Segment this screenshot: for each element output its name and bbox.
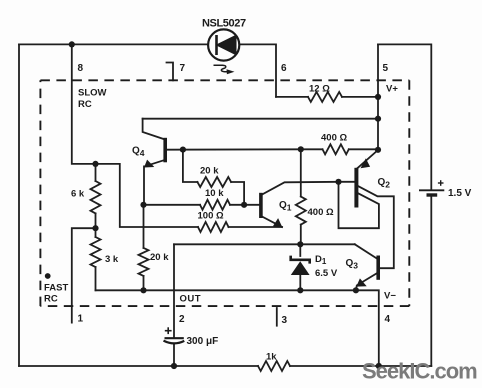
svg-text:1: 1 — [78, 314, 84, 325]
svg-text:4: 4 — [385, 314, 391, 325]
transistor Q1 — [261, 193, 283, 228]
wire 10k line left — [144, 204, 201, 206]
pin 7 stub — [167, 63, 174, 81]
wire Q4 base line — [167, 148, 301, 150]
node FAST RC terminal — [45, 273, 51, 279]
wire 100 ohm to Q1 emitter — [229, 226, 283, 228]
svg-text:FAST: FAST — [44, 283, 68, 294]
wire 400 ohm vert bottom lead — [300, 225, 302, 245]
svg-text:SeekIC.com: SeekIC.com — [362, 359, 477, 384]
svg-text:SLOW: SLOW — [78, 88, 107, 99]
wire pin 8 vertical — [72, 44, 96, 163]
wire outer left vertical — [18, 44, 20, 366]
wire 400 ohm horiz leads — [301, 148, 323, 150]
battery 1.5V lower lead — [430, 195, 432, 366]
node pin8 top — [69, 41, 75, 47]
wire Q2 collector2 — [356, 185, 393, 268]
wire Q4 collector line to pin5 — [143, 118, 378, 120]
wire Q2 collector1 loop to base — [339, 182, 379, 228]
wire outer bottom right of 1k — [290, 365, 431, 367]
svg-text:2: 2 — [179, 314, 185, 325]
node D1 top — [297, 241, 303, 247]
svg-text:10 k: 10 k — [205, 188, 224, 199]
node D1 bottom — [297, 287, 303, 293]
LED NSL5027 — [208, 29, 239, 60]
resistor R 3k — [91, 237, 101, 267]
transistor Q3 — [356, 256, 378, 287]
wire 6k bottom node to pin1 — [72, 228, 96, 322]
wire Q3 emitter — [356, 273, 378, 291]
svg-text:7: 7 — [180, 63, 186, 74]
node Q2 base — [335, 179, 341, 185]
resistor R 400 ohm vertical — [296, 197, 306, 225]
svg-text:Q4: Q4 — [132, 146, 145, 159]
svg-text:RC: RC — [78, 99, 92, 110]
svg-text:NSL5027: NSL5027 — [202, 18, 246, 30]
resistor R 400 ohm horizontal — [323, 144, 349, 154]
wire Q3 base diagonal — [355, 244, 377, 258]
svg-text:V+: V+ — [386, 84, 398, 95]
wire top right corner to battery — [378, 44, 431, 190]
wire V- internal bus — [96, 289, 356, 291]
wire D1 bottom lead — [299, 275, 301, 291]
node 400 ohm top — [298, 146, 304, 152]
resistor R 1k bottom — [258, 361, 290, 371]
svg-text:1k: 1k — [266, 352, 277, 363]
transistor Q2 — [356, 158, 370, 207]
wire 3k bottom lead — [95, 267, 97, 290]
svg-text:Q2: Q2 — [378, 177, 391, 190]
svg-text:RC: RC — [44, 294, 58, 305]
wire Q4 base node down to 20k horiz — [183, 150, 198, 182]
wire Q2 base line — [339, 181, 355, 183]
node Q3 emitter — [353, 287, 359, 293]
wire V- to pin 4 — [356, 290, 379, 366]
wire pin2 OUT vertical — [173, 244, 175, 338]
svg-text:400 Ω: 400 Ω — [308, 207, 334, 218]
transistor Q4 — [144, 138, 165, 168]
wire 400 ohm vert top lead — [300, 149, 302, 196]
capacitor 300uF — [164, 338, 185, 343]
wire Q2 emitter diagonal — [357, 150, 379, 169]
node Q4 collector pin5 — [375, 116, 381, 122]
svg-text:3 k: 3 k — [105, 254, 119, 265]
resistor R 6k — [91, 181, 101, 213]
svg-text:V−: V− — [384, 291, 396, 302]
wire Q4 emitter vertical — [143, 166, 146, 204]
node cap bottom — [171, 363, 177, 369]
svg-text:8: 8 — [78, 63, 84, 74]
wire 20k horiz to Q1 base node — [231, 182, 244, 205]
wire Q1 collector to Q2 base — [262, 182, 339, 195]
wire top left segment to LED — [19, 43, 208, 45]
wire Q4 collector — [143, 119, 165, 140]
wire Q1 emitter diagonal — [262, 217, 282, 228]
node 10k left — [140, 202, 146, 208]
svg-text:Q1: Q1 — [279, 200, 292, 213]
wire OUT bus — [174, 243, 355, 245]
svg-text:5: 5 — [383, 63, 389, 74]
svg-text:3: 3 — [282, 315, 288, 326]
wire 20k vert bottom lead — [143, 276, 145, 290]
node 6k top — [92, 161, 98, 167]
wire pin6 to 12 ohm — [276, 96, 308, 98]
wire 400 ohm horiz right lead — [349, 148, 378, 150]
svg-text:Q3: Q3 — [346, 258, 359, 271]
node Q4 base — [180, 147, 186, 153]
resistor R 20k vertical — [139, 248, 149, 276]
svg-text:20 k: 20 k — [200, 166, 219, 177]
battery 1.5V — [419, 190, 444, 195]
node 6k bottom — [92, 225, 98, 231]
capacitor plus sign — [165, 327, 172, 334]
node pin4 bottom — [376, 363, 382, 369]
svg-text:400 Ω: 400 Ω — [321, 133, 347, 144]
svg-text:300 μF: 300 μF — [187, 336, 219, 347]
wire 6k leads — [95, 164, 97, 181]
node Q1 base — [241, 202, 247, 208]
svg-text:100 Ω: 100 Ω — [198, 211, 224, 222]
resistor R 12 ohm — [308, 92, 342, 102]
wire D1 top lead — [299, 244, 301, 256]
resistor R 10k — [200, 200, 230, 210]
node 20k vert bottom — [140, 287, 146, 293]
svg-text:6.5 V: 6.5 V — [315, 268, 338, 279]
svg-text:D1: D1 — [315, 254, 327, 266]
LED light squiggle arrow — [214, 65, 228, 72]
wire pin 5 vertical — [377, 44, 379, 150]
resistor R 20k horizontal — [197, 177, 231, 187]
svg-text:6: 6 — [281, 63, 287, 74]
zener diode D1 6.5V — [291, 256, 310, 275]
svg-text:12 Ω: 12 Ω — [309, 84, 330, 95]
node V+ Q2 emitter — [375, 147, 381, 153]
svg-text:6 k: 6 k — [71, 189, 85, 200]
pin 3 stub — [276, 308, 278, 326]
wire 6k top node to corner — [96, 164, 199, 227]
resistor R 100 ohm — [198, 222, 229, 232]
wire outer bottom — [19, 365, 258, 367]
node 12ohm pin5 — [375, 94, 381, 100]
svg-text:1.5 V: 1.5 V — [448, 188, 472, 199]
wire LED right to pin 6 corner — [240, 44, 277, 97]
wire 10k to Q1 base — [230, 204, 259, 206]
wire 12 ohm to V+ line — [342, 96, 378, 98]
wire 6k bottom lead — [95, 213, 97, 237]
wire cap to bottom node — [173, 344, 175, 367]
svg-text:20 k: 20 k — [150, 252, 169, 263]
wire 20k vert top lead — [143, 205, 145, 248]
svg-text:OUT: OUT — [180, 294, 202, 305]
battery plus sign — [438, 180, 444, 186]
IC dashed box — [40, 80, 409, 306]
